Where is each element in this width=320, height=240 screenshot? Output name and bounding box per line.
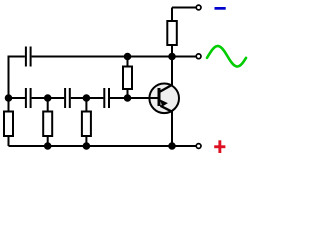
node: emitter bottom junction dot [169,143,175,149]
node B (ladder node 2) [45,95,51,101]
node: R2 bottom junction dot [45,143,51,149]
wire: top rail from C1 to collector junction [32,56,172,58]
node C (ladder node 3) [84,95,90,101]
label: positive supply plus sign (red) [214,140,225,153]
transistor Q1 emitter diagonal [160,106,172,112]
terminal: positive supply post [196,144,201,149]
resistor R2 [43,98,52,146]
resistor R4 (base bias, collector-to-base) [123,57,132,99]
wire: top supply wire to negative terminal [172,7,196,9]
waveform: green sine wave at output [207,46,246,67]
capacitor C3 [65,88,70,108]
wire: left column vertical + top-left rail segment to C1 [9,57,25,99]
resistor R5 (collector load) [167,8,177,57]
node A (ladder node 1) [6,95,12,101]
resistor R1 [4,98,13,146]
transistor Q1 base bar [158,88,161,106]
wire: C4 to transistor base [110,97,158,99]
wire: emitter vertical to bottom rail [171,112,173,147]
wire: C3 to C4 [71,97,104,99]
node D (base node) [125,95,131,101]
wire: middle rail dot1 to C2 [9,97,26,99]
terminal: output post [196,54,201,59]
node: R3 bottom junction dot [84,143,90,149]
node: top rail / R4 junction dot [125,54,131,60]
terminal: negative supply post [196,5,201,10]
transistor Q1 emitter arrow (PNP, points to base) [160,99,168,106]
wire: C2 to C3 [32,97,65,99]
resistor R3 [82,98,91,146]
capacitor C2 [26,88,31,108]
wire: bottom rail [9,145,196,147]
capacitor C1 (top feedback cap) [26,47,31,67]
label: negative supply minus sign (blue) [215,7,226,10]
transistor Q1 (PNP) body [149,84,179,114]
capacitor C4 [104,88,109,108]
wire: output wire to output terminal [172,56,196,58]
node: collector junction dot [169,54,175,60]
wire: collector vertical [171,57,173,86]
transistor Q1 collector diagonal [160,85,172,92]
